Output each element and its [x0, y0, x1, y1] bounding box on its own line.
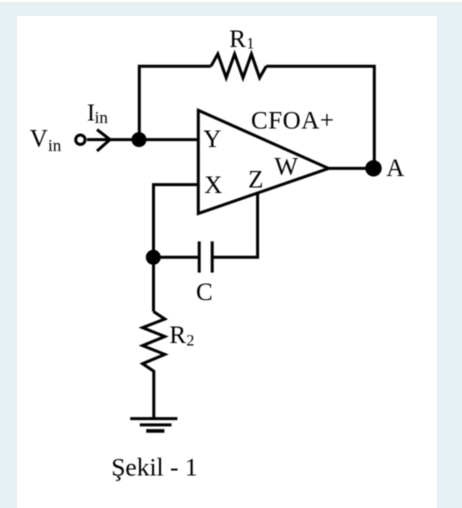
svg-text:R: R — [169, 322, 186, 349]
svg-text:Z: Z — [248, 167, 263, 194]
svg-text:W: W — [274, 153, 298, 180]
svg-text:in: in — [48, 136, 62, 155]
svg-text:Şekil - 1: Şekil - 1 — [111, 452, 197, 481]
svg-text:V: V — [30, 125, 48, 152]
svg-text:in: in — [95, 108, 109, 127]
svg-text:Y: Y — [203, 126, 221, 153]
svg-text:R: R — [229, 26, 246, 53]
svg-text:CFOA+: CFOA+ — [251, 108, 335, 135]
svg-text:X: X — [204, 172, 222, 199]
svg-text:2: 2 — [186, 333, 194, 350]
svg-text:C: C — [196, 279, 213, 306]
svg-text:1: 1 — [246, 35, 254, 52]
svg-text:A: A — [386, 155, 404, 182]
